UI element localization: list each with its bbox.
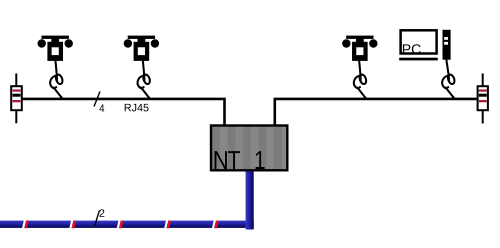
resistor R-left (left bus terminator): [11, 74, 22, 124]
U-interface cable horizontal run: [0, 221, 254, 228]
telephone T2: [124, 36, 159, 61]
label RJ45: [125, 104, 149, 112]
wire: right bus segment to NT1: [275, 99, 477, 125]
cable separator 1: [22, 221, 29, 229]
telephone T1: [38, 36, 73, 61]
wire-count slash (2 wires): [95, 210, 100, 225]
label 2: [100, 209, 105, 216]
cord of telephone T3: [354, 61, 368, 98]
cable separator 4: [164, 221, 171, 229]
cord of telephone T1: [50, 61, 64, 98]
label 4: [99, 105, 104, 112]
NT1 box U1: [211, 126, 287, 171]
cord of PC: [442, 60, 456, 99]
cable separator 2: [69, 221, 76, 229]
PC tower: [443, 30, 451, 60]
cable separator 3: [117, 221, 124, 229]
U-interface cable vertical run: [246, 171, 254, 229]
cord of telephone T2: [138, 61, 152, 98]
cable separator 5: [212, 221, 219, 229]
telephone T3: [342, 36, 377, 61]
resistor R-right (right bus terminator): [478, 74, 488, 124]
PC monitor: [399, 30, 438, 60]
wire: left bus segment to NT1: [23, 99, 225, 125]
wire-count slash (4 wires): [94, 92, 100, 107]
